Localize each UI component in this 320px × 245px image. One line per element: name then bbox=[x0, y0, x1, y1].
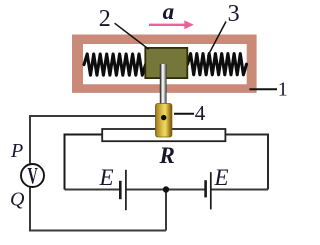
svg-text:V: V bbox=[28, 164, 38, 189]
battery E2 short plate bbox=[204, 180, 207, 197]
slider contact dot bbox=[161, 115, 166, 120]
frame 1 (pink guide frame) bbox=[72, 35, 257, 93]
wire junction vertical bbox=[165, 190, 167, 231]
leader line 1 bbox=[249, 88, 277, 90]
wire right loop bbox=[225, 135, 268, 190]
rod (slider shaft) bbox=[160, 64, 167, 106]
node junction bbox=[163, 186, 169, 192]
svg-text:3: 3 bbox=[228, 1, 240, 27]
svg-text:E: E bbox=[214, 165, 229, 190]
battery E1 short plate bbox=[119, 181, 122, 199]
leader dash 4 bbox=[174, 113, 194, 115]
svg-text:1: 1 bbox=[278, 79, 288, 101]
svg-text:R: R bbox=[159, 143, 175, 168]
svg-text:P: P bbox=[10, 140, 23, 162]
svg-text:4: 4 bbox=[195, 101, 206, 125]
svg-text:a: a bbox=[163, 0, 175, 24]
spring right bbox=[188, 54, 247, 75]
wire battery row bbox=[65, 189, 269, 191]
wire bottom bbox=[29, 230, 166, 232]
leader line 3 bbox=[208, 22, 227, 57]
svg-text:Q: Q bbox=[10, 189, 25, 211]
voltmeter V bbox=[21, 164, 44, 187]
slider cylinder 4 bbox=[156, 104, 172, 138]
battery E1 long plate bbox=[125, 170, 127, 210]
spring left bbox=[84, 54, 146, 75]
leader line 2 bbox=[115, 23, 149, 49]
arrow a bbox=[149, 24, 185, 26]
wire inner-left loop bbox=[65, 135, 103, 190]
wire left vertical (through voltmeter) bbox=[29, 115, 31, 231]
wire tap (slider to voltmeter top) bbox=[30, 115, 157, 117]
resistor R bbox=[102, 129, 225, 141]
block 2 (magnet block) bbox=[145, 48, 187, 78]
svg-text:E: E bbox=[99, 165, 114, 190]
svg-text:2: 2 bbox=[99, 6, 111, 32]
battery E2 long plate bbox=[210, 172, 212, 209]
